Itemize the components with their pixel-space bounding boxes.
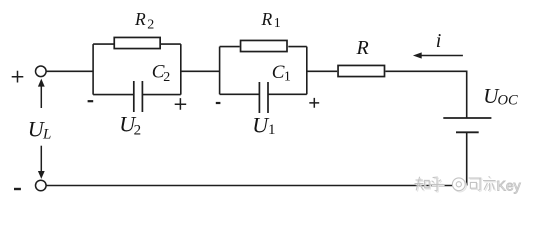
wire: right edge of R1C1 parallel loop [306, 47, 308, 95]
wire: bottom branch left of C2 [93, 94, 134, 96]
label U_L [28, 116, 52, 142]
svg-text:2: 2 [147, 18, 154, 33]
arrow up (U_L reference, toward + terminal) [38, 79, 45, 108]
svg-text:R: R [261, 9, 273, 29]
svg-text:1: 1 [274, 16, 281, 31]
wire: bottom branch right of C2 [142, 94, 180, 96]
voltage source U_OC (battery) : long plate [443, 117, 491, 119]
terminal - (negative, bottom-left) [36, 180, 47, 191]
capacitor C1 [259, 82, 268, 113]
capacitor C2 [134, 81, 143, 112]
label R [356, 37, 369, 59]
svg-text:L: L [42, 127, 51, 143]
wire: top branch right of R2 [161, 43, 181, 45]
wire: R1C1 loop to series resistor R [307, 70, 337, 72]
resistor R [338, 65, 384, 76]
arrow down (U_L reference, toward - terminal) [38, 146, 45, 179]
svg-text:i: i [436, 30, 442, 52]
wire: bottom branch right of C1 [268, 93, 307, 95]
label U2 [119, 112, 141, 139]
current arrow i (pointing left) [413, 52, 463, 58]
wire: top branch right of R1 [288, 46, 307, 48]
svg-text:2: 2 [134, 123, 142, 139]
label C2 [152, 61, 170, 85]
svg-text:1: 1 [268, 122, 276, 138]
wire: left edge of R2C2 parallel loop [92, 44, 94, 95]
svg-text:Key: Key [497, 177, 521, 193]
label U_OC [483, 84, 518, 109]
svg-text:R: R [356, 37, 369, 59]
minus sign (left terminal polarity) [14, 188, 21, 190]
svg-text:OC: OC [498, 93, 518, 109]
wire: node between RC loops [181, 70, 220, 72]
svg-text:R: R [134, 9, 146, 29]
plus sign (U2 polarity) [175, 98, 187, 110]
svg-text:C: C [272, 62, 285, 83]
wire: + terminal to node of R2C2 loop [47, 70, 94, 72]
wire: top branch left of R2 [93, 43, 113, 45]
minus sign (U1 polarity) [216, 102, 221, 104]
plus sign (U1 polarity) [309, 98, 319, 108]
wire: top branch left of R1 [220, 46, 240, 48]
wire: bottom branch left of C1 [220, 93, 260, 95]
watermark 知乎 @可亦Key [415, 176, 521, 193]
label R1 [261, 9, 281, 31]
label i [436, 30, 442, 52]
minus sign (U2 polarity) [88, 100, 94, 102]
wire: battery down to bottom-right corner [466, 132, 468, 185]
wire: R to top-right corner, down to battery [385, 71, 466, 118]
label U1 [252, 112, 275, 138]
voltage source U_OC (battery) : short plate [456, 131, 479, 133]
resistor R1 [241, 40, 287, 51]
wire: right edge of R2C2 parallel loop [180, 44, 182, 95]
terminal + (positive, top-left) [36, 66, 47, 77]
wire: bottom return wire [47, 185, 467, 187]
label R2 [134, 9, 154, 33]
resistor R2 [114, 37, 160, 48]
label C1 [272, 62, 291, 84]
wire: left edge of R1C1 parallel loop [219, 47, 221, 95]
plus sign (left terminal polarity) [12, 71, 24, 83]
svg-text:2: 2 [163, 70, 170, 85]
svg-text:1: 1 [284, 69, 291, 84]
